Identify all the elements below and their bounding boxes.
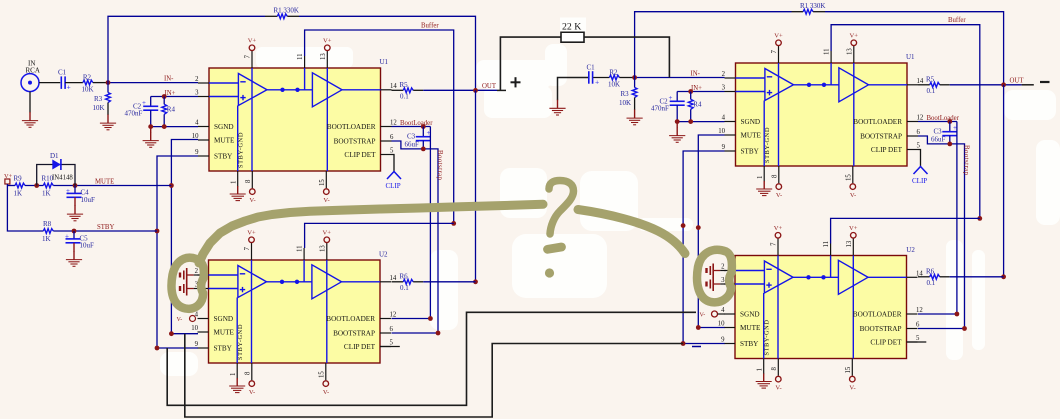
svg-text:R2: R2	[609, 69, 618, 77]
svg-text:OUT: OUT	[1010, 78, 1025, 85]
wire MUTE riser pin10	[171, 140, 198, 334]
right swoosh	[578, 210, 685, 254]
U2 pin4 V- (right)	[712, 311, 718, 317]
svg-text:IN-: IN-	[164, 76, 174, 83]
resistor R5 0.1	[392, 89, 404, 91]
svg-text:R3: R3	[621, 90, 630, 98]
svg-text:R6: R6	[926, 268, 935, 276]
svg-text:STBY: STBY	[97, 224, 114, 231]
U2 pin5 stub (right)	[907, 341, 927, 343]
V+ port	[5, 179, 10, 184]
ground	[150, 127, 152, 133]
svg-text:R6: R6	[400, 273, 409, 281]
wire SGND row	[151, 126, 198, 128]
wire pin6 bootstrap net (right)	[918, 136, 965, 329]
long swoosh curve	[199, 204, 543, 263]
wire R2 to junction (right)	[619, 77, 634, 79]
svg-text:66uF: 66uF	[931, 136, 946, 144]
wire C1 to R2 (right)	[593, 77, 609, 79]
svg-text:0.1: 0.1	[400, 284, 409, 292]
svg-text:0.1: 0.1	[927, 87, 936, 95]
ground	[100, 115, 116, 130]
capacitor C4 10uF	[74, 186, 76, 194]
capacitor C5 10uF	[73, 231, 75, 239]
svg-text:R3: R3	[94, 95, 103, 103]
svg-text:RCA: RCA	[26, 67, 40, 75]
wire Buffer net (right)	[831, 25, 980, 219]
resistor R4	[163, 97, 165, 105]
capacitor C2 470nF (right)	[676, 92, 678, 102]
U2 pin5 stub	[380, 346, 400, 348]
capacitor C2 470nF	[150, 97, 152, 107]
svg-text:1K: 1K	[14, 190, 23, 198]
node	[162, 94, 167, 99]
wire OUT	[423, 89, 497, 91]
svg-text:470nF: 470nF	[651, 105, 669, 113]
svg-text:0.1: 0.1	[927, 279, 936, 287]
wire feedback riser (right)	[635, 12, 792, 78]
plus sign annotation	[511, 77, 521, 87]
resistor R8 1K	[43, 229, 53, 234]
wire pin5 clip (right)	[918, 150, 921, 167]
svg-text:CLIP: CLIP	[386, 182, 401, 190]
resistor R3 10K (right)	[634, 78, 636, 88]
svg-text:R9: R9	[14, 175, 23, 183]
wire STBY riser pin9	[157, 156, 198, 348]
wire SGND row (right)	[677, 121, 724, 123]
wire IN+ pin3	[151, 96, 198, 98]
wire junction to IN- pin 2 (right)	[635, 77, 725, 79]
svg-text:10K: 10K	[619, 99, 631, 107]
svg-text:Buffer: Buffer	[421, 23, 439, 30]
wire RCA to ground	[29, 92, 31, 113]
svg-text:+: +	[66, 187, 70, 195]
ground	[22, 112, 38, 127]
svg-text:R4: R4	[693, 101, 702, 109]
svg-text:U2: U2	[379, 251, 388, 259]
resistor R5 0.1 (right)	[918, 84, 930, 86]
svg-text:10K: 10K	[93, 104, 105, 112]
wire bootloader riser down to U2 pin12	[392, 127, 431, 319]
op-amp U2	[191, 230, 397, 396]
wire bottom link B: left pin10 row to right pin9	[185, 334, 683, 417]
svg-text:10K: 10K	[82, 86, 94, 94]
svg-text:OUT: OUT	[482, 83, 497, 90]
svg-text:C1: C1	[58, 69, 67, 77]
wire OUT riser down to U2 output (right)	[1003, 85, 1005, 277]
connector IN RCA	[21, 60, 40, 92]
svg-text:+: +	[67, 83, 71, 92]
svg-text:R2: R2	[83, 74, 92, 82]
svg-text:V-: V-	[700, 313, 706, 319]
wire 22K link from left OUT	[500, 37, 561, 91]
svg-text:Bootstrap: Bootstrap	[963, 145, 970, 176]
wire U2 pin11 riser (right)	[831, 218, 980, 243]
diode D1 IN4148	[52, 160, 61, 170]
svg-text:+: +	[142, 99, 146, 107]
svg-text:R5: R5	[926, 76, 935, 84]
svg-text:U2: U2	[906, 246, 915, 254]
wire STBY row	[53, 230, 157, 232]
wire STBY riser pin9 (right)	[683, 151, 724, 344]
svg-text:MUTE: MUTE	[95, 179, 114, 186]
svg-text:U1: U1	[380, 58, 389, 66]
svg-text:+: +	[65, 233, 69, 241]
ground	[549, 100, 565, 115]
wire gnd drop for C1 (hand-drawn black)	[558, 78, 589, 101]
op-amp U1 (right)	[718, 33, 924, 199]
question mark	[549, 181, 574, 235]
capacitor C3 66uF	[422, 127, 424, 137]
wire bottom link A: left pin9 row to right pin4	[167, 312, 696, 405]
wire MUTE row	[53, 185, 171, 187]
wire OUT riser down to U2 output	[475, 90, 477, 281]
wire Buffer net: U1 pin11 up and over down to U2 pin11 row	[305, 30, 454, 223]
resistor R2	[83, 80, 93, 85]
wire pin6 bootstrap net	[392, 141, 439, 333]
resistor R4 (right)	[690, 92, 692, 100]
diode D1 loop wire	[37, 165, 75, 186]
svg-text:D1: D1	[50, 152, 59, 160]
CLIP symbol	[387, 172, 401, 180]
wire C1 to R2	[65, 82, 83, 84]
wire pin12 BootLoader (right)	[918, 121, 957, 123]
circle around right U2 pins 2,3	[697, 250, 732, 303]
svg-text:R1 330K: R1 330K	[274, 7, 299, 15]
resistor R1 330K (right)	[792, 11, 804, 13]
svg-text:Buffer: Buffer	[948, 17, 966, 24]
svg-text:V+: V+	[4, 173, 13, 180]
svg-text:IN4148: IN4148	[52, 175, 73, 182]
capacitor C3 66uF (right)	[949, 122, 951, 132]
svg-text:66uF: 66uF	[405, 141, 420, 149]
svg-text:R5: R5	[400, 81, 409, 89]
resistor R10 1K	[43, 183, 53, 188]
wire bootloader riser down to U2 pin12 (right)	[918, 122, 957, 315]
resistor R6 0.1	[392, 281, 404, 283]
ground	[676, 122, 678, 128]
U2 pin3 cap-gnd	[180, 282, 200, 296]
resistor R3 10K	[107, 83, 109, 93]
U2 pin2 cap-gnd	[180, 268, 200, 282]
svg-text:R8: R8	[43, 220, 52, 228]
U2 pin3 cap-gnd (right)	[707, 277, 727, 291]
svg-text:C3: C3	[934, 128, 943, 136]
svg-text:C3: C3	[407, 133, 416, 141]
svg-text:R1 330K: R1 330K	[800, 2, 825, 10]
circle around left U2 pins 2,3	[171, 258, 203, 309]
svg-text:BootLoader: BootLoader	[927, 115, 960, 122]
svg-text:+: +	[595, 78, 599, 87]
resistor 22K (hand-drawn box)	[561, 32, 584, 42]
svg-text:BootLoader: BootLoader	[400, 120, 433, 127]
minus sign annotation	[1040, 81, 1050, 83]
svg-text:U1: U1	[906, 53, 915, 61]
wire pin12 BootLoader	[392, 126, 431, 128]
ground	[627, 110, 643, 125]
svg-text:0.1: 0.1	[400, 93, 409, 101]
wire IN+ pin3 (right)	[677, 91, 724, 93]
svg-text:470nF: 470nF	[125, 110, 143, 118]
svg-text:10uF: 10uF	[80, 242, 95, 250]
resistor R2 (right)	[609, 75, 619, 80]
svg-text:V-: V-	[177, 317, 183, 323]
wire R2 to pin2 junction	[93, 82, 108, 84]
wire feedback riser	[108, 16, 265, 82]
wire OUT (right)	[950, 84, 1022, 86]
wire R6 to OUT riser	[423, 281, 475, 283]
U2 pin4 V-	[190, 316, 196, 322]
svg-text:1K: 1K	[42, 190, 51, 198]
wire RCA to C1	[39, 82, 60, 84]
U2 pin2 cap-gnd (right)	[707, 264, 727, 278]
svg-text:CLIP: CLIP	[912, 177, 927, 185]
capacitor C1 (right)	[589, 71, 593, 84]
node	[688, 89, 693, 94]
wire pin5 clip	[392, 155, 395, 172]
wire junction to IN- pin 2	[108, 82, 198, 84]
wire R1 to OUT riser	[299, 16, 476, 90]
op-amp U1	[192, 38, 398, 204]
node junction (right)	[632, 75, 637, 80]
resistor R9 1K	[15, 183, 25, 188]
wire V+ rail	[7, 184, 43, 231]
svg-text:IN-: IN-	[691, 71, 701, 78]
svg-text:R4: R4	[167, 106, 176, 114]
op-amp U2 (right)	[718, 225, 924, 391]
wire MUTE riser pin10 (right)	[698, 135, 724, 328]
svg-text:10K: 10K	[608, 81, 620, 89]
svg-text:C1: C1	[587, 64, 596, 72]
wire stub blue tick near pin9 (right)	[692, 346, 701, 348]
svg-text:Bootstrap: Bootstrap	[436, 150, 443, 181]
svg-text:1K: 1K	[42, 235, 51, 243]
wire U2 pin11 riser	[305, 223, 454, 248]
resistor R1 330K	[265, 15, 277, 17]
svg-text:10uF: 10uF	[81, 196, 96, 204]
wire R6 to OUT riser (right)	[950, 276, 1004, 278]
CLIP symbol (right)	[914, 167, 928, 175]
resistor R6 0.1 (right)	[918, 276, 930, 278]
svg-text:22 K: 22 K	[562, 21, 581, 32]
svg-text:+: +	[669, 94, 673, 102]
wire 22K to right IN-	[584, 37, 669, 77]
wire	[25, 185, 43, 187]
wire R1 to OUT riser (right)	[825, 12, 1004, 85]
node junction	[106, 80, 111, 85]
capacitor C1	[61, 76, 65, 89]
